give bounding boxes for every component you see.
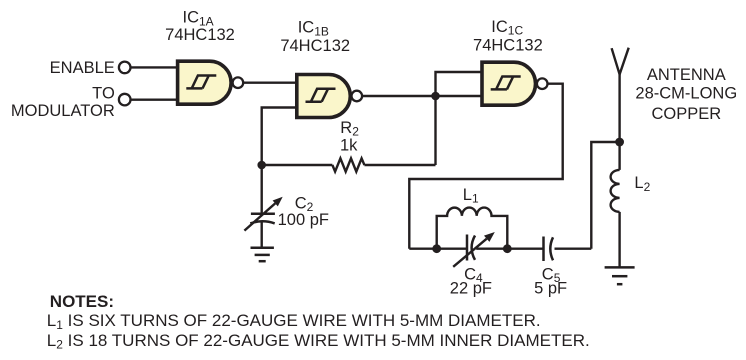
svg-text:1k: 1k [340, 136, 358, 154]
svg-text:L1 IS SIX TURNS OF 22-GAUGE WI: L1 IS SIX TURNS OF 22-GAUGE WIRE WITH 5-… [47, 311, 541, 332]
svg-text:74HC132: 74HC132 [280, 37, 350, 55]
svg-text:ENABLE: ENABLE [50, 59, 115, 77]
svg-text:74HC132: 74HC132 [473, 36, 543, 54]
svg-text:COPPER: COPPER [651, 105, 721, 123]
svg-text:22 pF: 22 pF [450, 280, 492, 298]
svg-text:TO: TO [92, 85, 115, 103]
svg-text:28-CM-LONG: 28-CM-LONG [635, 85, 737, 103]
svg-text:ANTENNA: ANTENNA [647, 66, 726, 84]
svg-text:74HC132: 74HC132 [165, 26, 235, 44]
svg-text:L2 IS 18 TURNS OF 22-GAUGE WIR: L2 IS 18 TURNS OF 22-GAUGE WIRE WITH 5-M… [47, 331, 590, 352]
svg-text:MODULATOR: MODULATOR [11, 102, 115, 120]
svg-text:5 pF: 5 pF [534, 280, 567, 298]
svg-text:100 pF: 100 pF [278, 211, 329, 229]
svg-text:NOTES:: NOTES: [50, 292, 114, 311]
